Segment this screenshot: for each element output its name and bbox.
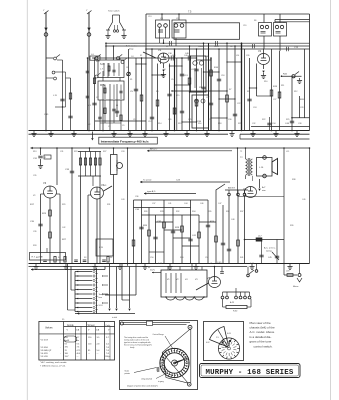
svg-text:190: 190 (65, 337, 69, 339)
wire right frame vertical (309, 14, 311, 131)
svg-text:C44: C44 (285, 123, 290, 125)
svg-text:V2: V2 (176, 279, 179, 281)
tone switch detail (top) (105, 10, 126, 39)
svg-text:R7: R7 (229, 89, 231, 91)
cluster stair segments (149, 222, 216, 252)
svg-text:R21: R21 (238, 123, 241, 125)
IF frequency label arrow (91, 132, 93, 141)
jack socket (111, 147, 123, 258)
svg-text:C16: C16 (172, 55, 175, 57)
svg-text:F2: F2 (140, 55, 142, 57)
svg-text:L15: L15 (286, 151, 289, 153)
svg-text:L14: L14 (236, 55, 239, 57)
IF transformer T1 can (156, 20, 170, 38)
wire aerial coupling C1 (88, 58, 97, 131)
label group mid-left (30, 204, 67, 241)
svg-text:V3 6M6,QP: V3 6M6,QP (41, 350, 52, 352)
svg-text:S.24: S.24 (99, 305, 103, 307)
annotation arrow type (144, 190, 196, 195)
wire riser x174 (173, 48, 177, 130)
resistor bank drops (81, 176, 101, 259)
svg-text:pointer: pointer (125, 372, 131, 375)
svg-text:C12: C12 (148, 121, 151, 123)
svg-text:Temperature: Temperature (99, 293, 110, 296)
output transformer (240, 156, 253, 180)
svg-text:A-T: A-T (262, 186, 266, 189)
svg-text:R38: R38 (292, 179, 295, 181)
wire mid bus 2 (29, 266, 248, 268)
svg-text:R8: R8 (230, 46, 232, 48)
svg-text:C6: C6 (126, 67, 128, 69)
svg-text:196(a): 196(a) (105, 356, 111, 358)
svg-text:C25: C25 (188, 119, 191, 121)
svg-text:R42: R42 (283, 74, 288, 76)
svg-text:5-4: 5-4 (97, 350, 101, 352)
svg-text:76: 76 (65, 350, 68, 352)
svg-text:1.5: 1.5 (216, 337, 220, 339)
cluster riser x244 (244, 196, 246, 264)
svg-text:R31: R31 (107, 204, 110, 206)
svg-text:R27: R27 (103, 151, 106, 153)
svg-text:L17: L17 (258, 236, 262, 238)
svg-text:control switch.: control switch. (254, 344, 273, 348)
wire rail c (146, 47, 310, 49)
aerial series coil (90, 54, 100, 60)
IF frequency label box (99, 137, 158, 144)
dial drive box frame (120, 321, 198, 390)
svg-text:R35: R35 (208, 211, 211, 213)
wire riser x106 (105, 43, 107, 60)
svg-text:C11: C11 (133, 119, 136, 121)
wire riser x249 (247, 58, 251, 131)
svg-text:R12: R12 (294, 91, 297, 93)
valve table frame (39, 322, 115, 361)
AC DC text (264, 247, 279, 261)
svg-text:string attached: string attached (141, 377, 152, 380)
svg-text:C46: C46 (200, 203, 203, 205)
svg-text:MURPHY - 168 SERIES: MURPHY - 168 SERIES (205, 369, 293, 377)
svg-text:R17: R17 (30, 204, 35, 206)
svg-text:C1: C1 (88, 105, 92, 107)
valve table header (45, 324, 111, 332)
svg-text:A.C. mains: A.C. mains (126, 45, 138, 48)
title box MURPHY 168 SERIES (200, 364, 301, 378)
svg-text:Diagram of pointer drive cords: Diagram of pointer drive cords below(?) (127, 384, 158, 387)
svg-text:7-8: 7-8 (106, 353, 110, 355)
caption text right (250, 321, 276, 349)
svg-text:gram of the tone: gram of the tone (250, 340, 272, 344)
svg-text:Int(?): Int(?) (150, 269, 155, 272)
transformer top leads (168, 264, 202, 271)
svg-text:L12: L12 (176, 18, 179, 20)
wire riser x227 (226, 42, 229, 130)
mains transformer scallops (165, 296, 205, 300)
switch risers (108, 264, 136, 312)
svg-text:40.6: 40.6 (77, 353, 81, 355)
svg-text:..: .. (60, 347, 62, 349)
svg-text:180: 180 (65, 353, 69, 355)
svg-text:T2: T2 (240, 157, 243, 159)
wave switch comb (68, 264, 109, 314)
svg-text:V1: V1 (158, 48, 162, 52)
cluster top rail (134, 199, 209, 201)
valve V2 (258, 49, 270, 65)
svg-text:V: V (108, 330, 110, 332)
svg-text:R28: R28 (160, 211, 163, 213)
svg-text:type A,D: type A,D (147, 190, 156, 193)
valve V4 output (243, 187, 257, 198)
svg-text:85: 85 (88, 350, 91, 352)
dial drive top track (120, 321, 192, 329)
svg-text:6m: 6m (77, 340, 80, 342)
wire riser x128 with trimmer (127, 49, 131, 131)
svg-text:R26: R26 (143, 225, 148, 227)
svg-text:R4: R4 (163, 69, 165, 71)
wire chassis bus 1 (29, 130, 310, 132)
svg-text:Tone switch: Tone switch (108, 10, 120, 13)
wire long centre vertical (127, 147, 129, 266)
svg-text:Intermediate Frequency 465: Intermediate Frequency 465 kc/s (101, 139, 149, 143)
svg-text:R23: R23 (74, 151, 77, 153)
wire can drop feeds (160, 13, 180, 46)
valve V1 stem (161, 64, 166, 78)
svg-text:L.16: L.16 (259, 167, 264, 169)
svg-text:—: — (88, 353, 90, 355)
tone switch dots (206, 333, 236, 356)
svg-text:V2 6D6: V2 6D6 (41, 347, 49, 349)
valve table columns (64, 322, 110, 361)
svg-text:V1: V1 (166, 46, 168, 48)
svg-text:V5: V5 (207, 276, 211, 280)
wire riser x196 (194, 48, 198, 130)
wire feeds to right IF cans (264, 14, 310, 23)
wire AVC contact (281, 72, 302, 84)
svg-text:C21B: C21B (214, 46, 219, 48)
svg-text:C36: C36 (135, 209, 140, 211)
svg-text:2-6: 2-6 (106, 343, 110, 345)
wire riser x256 (257, 64, 272, 97)
svg-text:C18: C18 (221, 75, 224, 77)
svg-text:V3: V3 (43, 181, 47, 185)
coil box interior parts (104, 63, 123, 99)
svg-text:Valves: Valves (45, 326, 53, 330)
svg-text:L13: L13 (184, 75, 188, 77)
svg-text:AE y, D: AE y, D (150, 148, 158, 151)
wire cap C on x269 (267, 117, 271, 131)
tuning gang outline box (174, 23, 240, 40)
svg-text:..: .. (60, 353, 62, 355)
cluster labels (135, 209, 215, 237)
resistor bank box (78, 147, 101, 176)
svg-text:R39: R39 (290, 225, 293, 227)
wire partial rail y121 left (95, 120, 146, 122)
wire riser x189 (184, 45, 191, 130)
svg-text:190*: 190* (65, 356, 69, 358)
svg-text:to dial: to dial (112, 316, 118, 319)
svg-text:C35: C35 (30, 221, 35, 223)
V3 leads (41, 194, 61, 259)
svg-text:3-7: 3-7 (106, 337, 110, 339)
svg-text:190: 190 (65, 347, 69, 349)
dial cords (162, 329, 191, 386)
svg-text:S3: S3 (84, 257, 86, 259)
svg-text:R33: R33 (33, 245, 36, 247)
wire partial rail y139 right (240, 134, 310, 139)
node dots on bus (45, 130, 293, 132)
svg-text:C19: C19 (243, 25, 246, 27)
fuse and plug (284, 264, 302, 289)
page left edge line (26, 0, 28, 400)
svg-text:Y: Y (86, 10, 88, 12)
wire riser x72 mid (65, 147, 74, 258)
svg-text:freely.: freely. (130, 346, 135, 349)
svg-text:C34: C34 (272, 123, 275, 125)
svg-text:A.25: A.25 (230, 301, 235, 304)
node junction left (94, 42, 107, 58)
trimmer circles row (95, 54, 127, 78)
svg-text:C4: C4 (131, 56, 133, 58)
svg-text:R25: R25 (286, 119, 289, 121)
svg-text:this set see p.2 of horiz: this set see p.2 of horizontal type(?) (124, 343, 152, 346)
coil box L3/L4 (M.W.) (98, 81, 124, 100)
svg-text:9.6: 9.6 (77, 343, 81, 345)
svg-text:R15: R15 (178, 123, 181, 125)
aerial switch network left (44, 55, 73, 131)
coil box L1/L2 (S.W.) (98, 60, 124, 78)
wire speaker frame right (283, 147, 285, 275)
wire riser x203 (201, 42, 205, 130)
mains terminals (221, 288, 251, 304)
svg-text:R34: R34 (192, 211, 195, 213)
wire screen rail b (106, 45, 310, 47)
wire anode row segment (164, 57, 198, 59)
svg-text:C27: C27 (273, 99, 276, 101)
label A.C. mains drop (126, 45, 138, 51)
svg-text:R18: R18 (218, 123, 221, 125)
svg-text:C41A: C41A (198, 45, 203, 48)
page right edge line (330, 0, 332, 400)
svg-text:R28: R28 (175, 227, 180, 229)
dial labels (125, 333, 174, 387)
svg-text:S/W: S/W (96, 61, 100, 63)
wire tap to left edge (31, 267, 105, 271)
V4 leads (88, 186, 112, 259)
wire riser x235 (233, 45, 237, 130)
wire riser x157 (156, 64, 159, 131)
wire riser x136 (130, 58, 138, 131)
svg-text:Anode: Anode (67, 324, 74, 327)
wire partial rail y126 right (251, 126, 310, 128)
left col caps (38, 220, 42, 230)
svg-text:C28: C28 (300, 107, 303, 109)
wire riser x292 (285, 76, 294, 130)
wire riser x309 mid (section frame) (309, 147, 311, 263)
svg-text:C39: C39 (33, 231, 36, 233)
svg-text:..: .. (60, 339, 62, 341)
wire mid bus 1 (29, 263, 310, 265)
HT rail left arrow (31, 147, 33, 149)
svg-text:S4: S4 (110, 257, 112, 259)
wire drops from IF cans (264, 36, 280, 51)
svg-text:S.25: S.25 (250, 263, 254, 265)
wire riser x182 (180, 57, 184, 130)
wire HT rail section2 (31, 147, 310, 149)
wire riser x169 (167, 64, 171, 131)
svg-text:C31: C31 (60, 151, 63, 153)
cluster components (132, 222, 225, 246)
more caps left risers (86, 71, 96, 98)
second coil can (192, 95, 209, 128)
svg-text:C5: C5 (130, 91, 134, 93)
wire riser x211 (209, 43, 214, 130)
wire anode rail V1 (92, 57, 160, 59)
tone switch sector (210, 327, 229, 348)
wire centre jogs (135, 59, 257, 122)
svg-text:—: — (97, 353, 99, 355)
dial spring (157, 366, 163, 372)
svg-text:AE(?) E: AE(?) E (228, 187, 236, 190)
svg-text:R29: R29 (62, 204, 65, 206)
svg-text:C37: C37 (152, 203, 155, 205)
wire riser x219 (217, 48, 221, 130)
tone switch wafer (218, 338, 239, 359)
svg-text:L.19: L.19 (99, 247, 104, 249)
capacitor C31 on left (33, 147, 43, 168)
svg-text:drop: drop (129, 47, 134, 50)
svg-text:R6: R6 (254, 20, 256, 22)
svg-text:R36: R36 (226, 211, 229, 213)
svg-text:R14: R14 (158, 123, 161, 125)
svg-text:V4 6P6: V4 6P6 (41, 353, 49, 355)
svg-text:100: 100 (88, 343, 92, 345)
svg-text:To aerial: To aerial (143, 179, 152, 182)
svg-text:L18: L18 (286, 271, 290, 273)
svg-text:C13: C13 (148, 16, 151, 18)
svg-text:0.05: 0.05 (227, 333, 232, 335)
svg-text:R5: R5 (199, 87, 201, 89)
svg-text:0.02: 0.02 (206, 342, 210, 344)
svg-text:A.C. or D.C.: A.C. or D.C. (264, 247, 276, 250)
choke box mid-left (96, 239, 113, 256)
wire right short rail (291, 117, 309, 119)
svg-text:R16: R16 (198, 123, 201, 125)
cluster riser x238 (237, 196, 240, 264)
wire riser x113 (113, 45, 115, 60)
wire heavy riser x242 (241, 42, 243, 130)
svg-text:C48: C48 (231, 219, 234, 221)
valve V4 (91, 183, 105, 199)
svg-text:L.15: L.15 (53, 95, 58, 97)
wire riser x160 (160, 58, 162, 64)
wire anode wiggle V1 (163, 39, 165, 43)
svg-text:C49: C49 (302, 199, 305, 201)
svg-text:C36: C36 (135, 196, 138, 198)
svg-text:C.39: C.39 (44, 114, 49, 116)
svg-text:* A.C. working, each anode.: * A.C. working, each anode. (40, 361, 67, 364)
wire riser x299 (299, 96, 301, 118)
svg-text:R27: R27 (62, 239, 67, 241)
valve table body (41, 336, 111, 358)
svg-text:fuse: fuse (99, 297, 103, 299)
wire riser x279 (278, 51, 281, 131)
wire left riser x87 (87, 57, 89, 130)
mid bus tops: component stubs (41, 257, 114, 264)
label left of transformer (150, 269, 161, 274)
svg-text:C14: C14 (171, 79, 174, 81)
svg-text:R9: R9 (247, 91, 249, 93)
svg-text:S1: S1 (36, 257, 38, 259)
svg-text:C47: C47 (218, 203, 221, 205)
series caps on anode row (168, 53, 190, 61)
svg-text:C15: C15 (176, 95, 179, 97)
IF transformer T3 can (259, 23, 272, 37)
svg-text:3-5: 3-5 (97, 337, 101, 339)
svg-text:S.23: S.23 (158, 263, 162, 265)
svg-text:Cath.: Cath. (105, 324, 111, 327)
svg-text:R19: R19 (273, 86, 278, 88)
right lower caps (259, 240, 279, 264)
wire speaker frame left (237, 147, 239, 196)
wire left frame vertical (145, 14, 147, 131)
svg-text:R13: R13 (33, 151, 36, 153)
svg-text:chassis (left) of the: chassis (left) of the (250, 326, 276, 330)
wire speaker box bottom (238, 196, 285, 198)
svg-text:V5: V5 (210, 263, 212, 265)
C45 cap near V5 (217, 262, 224, 273)
svg-text:C22: C22 (237, 103, 240, 105)
comb labels (99, 293, 110, 307)
svg-text:C51: C51 (205, 257, 208, 259)
svg-text:Mains: Mains (293, 286, 298, 288)
svg-text:C33: C33 (121, 151, 124, 153)
svg-text:S5: S5 (62, 319, 64, 321)
cluster verticals (134, 196, 224, 264)
svg-text:C40: C40 (184, 55, 187, 57)
svg-text:S.W.: S.W. (100, 63, 105, 66)
wire drop from coil boxes (103, 58, 120, 131)
svg-text:C23: C23 (176, 180, 181, 182)
svg-text:L13: L13 (191, 69, 194, 71)
wire riser x304 (300, 49, 305, 118)
svg-text:R20: R20 (300, 99, 305, 101)
mid bus grounds (33, 264, 292, 269)
svg-text:R40: R40 (180, 257, 183, 259)
coil L17 rail (244, 236, 284, 242)
svg-text:C29: C29 (208, 119, 211, 121)
wire riser x141 (140, 57, 143, 130)
dial drum (160, 348, 189, 377)
svg-text:to gang: to gang (158, 380, 164, 383)
svg-text:R1: R1 (130, 79, 132, 81)
svg-text:V1 6C9: V1 6C9 (41, 340, 49, 342)
tone control switch box frame (204, 322, 244, 361)
valve table rows (39, 327, 115, 334)
svg-text:V: V (67, 330, 69, 332)
svg-text:S2: S2 (58, 257, 60, 259)
svg-text:R11: R11 (281, 85, 284, 87)
svg-text:L11: L11 (160, 18, 163, 20)
svg-text:mA: mA (76, 329, 80, 332)
valve V3 (43, 181, 57, 198)
wire centre horizontal y91 (171, 90, 227, 91)
svg-text:C41: C41 (192, 235, 197, 237)
svg-text:V5 U20: V5 U20 (41, 356, 49, 358)
svg-text:T2: T2 (240, 151, 242, 153)
svg-text:Y: Y (43, 10, 45, 12)
oscillator coil can (191, 56, 207, 92)
mains switch S (247, 264, 258, 277)
ground stubs on bus (31, 131, 299, 136)
